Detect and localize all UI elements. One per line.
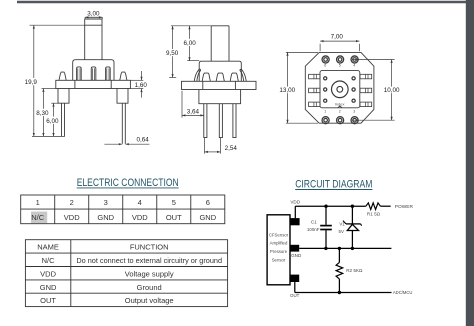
svg-text:Pressure: Pressure <box>270 249 288 254</box>
svg-text:ADC/MCU: ADC/MCU <box>393 290 413 295</box>
svg-text:100nF: 100nF <box>307 227 320 232</box>
svg-text:GND: GND <box>40 283 57 292</box>
svg-text:R1 5Ω: R1 5Ω <box>367 211 381 216</box>
svg-text:0,64: 0,64 <box>136 137 149 144</box>
svg-text:1: 1 <box>324 110 326 114</box>
svg-text:Amplified: Amplified <box>270 241 288 246</box>
svg-text:6,00: 6,00 <box>183 40 196 47</box>
svg-text:6,00: 6,00 <box>46 118 59 125</box>
svg-text:13,00: 13,00 <box>279 87 295 94</box>
svg-text:1: 1 <box>36 198 40 207</box>
svg-text:C1: C1 <box>311 220 317 225</box>
svg-text:Output voltage: Output voltage <box>125 296 174 305</box>
svg-text:Sensor: Sensor <box>272 257 286 262</box>
svg-text:10,00: 10,00 <box>384 87 400 94</box>
svg-text:OUT: OUT <box>290 293 300 298</box>
svg-text:POWER: POWER <box>395 204 414 210</box>
svg-text:5: 5 <box>339 64 341 68</box>
svg-text:2: 2 <box>339 110 341 114</box>
svg-text:Do not connect to external cir: Do not connect to external circuitry or … <box>76 256 222 265</box>
svg-text:9,50: 9,50 <box>166 50 179 57</box>
svg-text:2: 2 <box>70 198 74 207</box>
svg-text:3,64: 3,64 <box>187 108 200 115</box>
svg-text:5: 5 <box>172 198 176 207</box>
svg-text:FUNCTION: FUNCTION <box>130 243 169 252</box>
svg-text:CIRCUIT DIAGRAM: CIRCUIT DIAGRAM <box>295 179 372 191</box>
svg-text:5V: 5V <box>339 229 344 234</box>
svg-text:6: 6 <box>324 64 326 68</box>
svg-text:Voltage supply: Voltage supply <box>125 270 174 279</box>
svg-text:VDD: VDD <box>290 200 300 205</box>
svg-text:GND: GND <box>97 213 114 222</box>
svg-text:R2 5KΩ: R2 5KΩ <box>346 268 363 273</box>
svg-text:4: 4 <box>138 198 142 207</box>
svg-text:CFSensor: CFSensor <box>269 232 289 237</box>
svg-text:3: 3 <box>104 198 108 207</box>
svg-text:8,30: 8,30 <box>36 110 49 117</box>
svg-text:GND: GND <box>291 253 302 258</box>
svg-text:GND: GND <box>199 213 216 222</box>
svg-text:VDD: VDD <box>64 213 80 222</box>
svg-text:3: 3 <box>353 110 355 114</box>
svg-text:N/C: N/C <box>42 256 56 265</box>
svg-text:OUT: OUT <box>166 213 182 222</box>
svg-text:3,00: 3,00 <box>87 10 100 17</box>
svg-text:19,9: 19,9 <box>25 79 38 86</box>
svg-text:ELECTRIC CONNECTION: ELECTRIC CONNECTION <box>77 177 179 189</box>
svg-text:VDD: VDD <box>132 213 148 222</box>
svg-text:4: 4 <box>353 64 355 68</box>
svg-text:2,54: 2,54 <box>225 145 238 152</box>
svg-text:VDD: VDD <box>40 270 56 279</box>
svg-text:Ground: Ground <box>137 283 162 292</box>
svg-text:N/C: N/C <box>31 213 45 222</box>
svg-text:V1: V1 <box>339 222 345 227</box>
svg-text:NAME: NAME <box>37 243 59 252</box>
svg-text:1,60: 1,60 <box>135 82 148 89</box>
svg-text:7,00: 7,00 <box>331 33 344 40</box>
svg-text:OUT: OUT <box>40 296 56 305</box>
svg-text:6: 6 <box>206 198 210 207</box>
